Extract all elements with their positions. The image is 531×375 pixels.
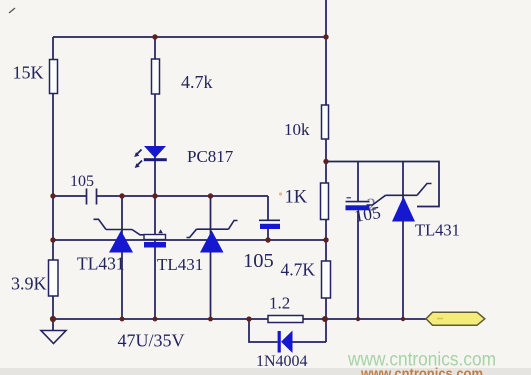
svg-text:4.7k: 4.7k (181, 72, 213, 92)
svg-text:TL431: TL431 (77, 254, 125, 274)
svg-text:4.7K: 4.7K (281, 260, 316, 280)
svg-text:15K: 15K (13, 63, 44, 83)
svg-text:PC817: PC817 (187, 147, 234, 166)
svg-text:1N4004: 1N4004 (256, 353, 308, 370)
svg-text:105: 105 (243, 250, 274, 272)
svg-text:1.2: 1.2 (269, 294, 290, 313)
svg-text:10k: 10k (284, 120, 310, 139)
svg-text:105: 105 (70, 173, 94, 190)
svg-text:3.9K: 3.9K (11, 274, 47, 294)
svg-text:www.cntronics.com: www.cntronics.com (360, 366, 483, 375)
svg-text:TL431: TL431 (415, 221, 460, 240)
svg-text:TL431: TL431 (157, 255, 203, 274)
svg-text:47U/35V: 47U/35V (118, 331, 185, 351)
svg-text:105: 105 (353, 202, 382, 226)
svg-text:1K: 1K (285, 188, 308, 208)
